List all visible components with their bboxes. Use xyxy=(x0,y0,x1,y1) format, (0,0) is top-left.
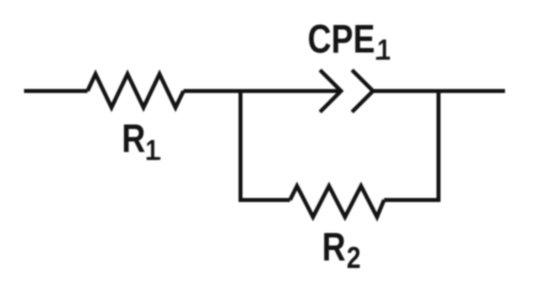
CPE1 chevron 1 xyxy=(320,70,341,112)
svg-text:1: 1 xyxy=(377,33,390,66)
wire: R2 to bottom right xyxy=(384,198,441,202)
svg-text:R: R xyxy=(322,225,346,270)
wire: R1 to node A (top junction left) xyxy=(184,89,241,93)
label CPE1 xyxy=(308,16,391,66)
resistor R1 (zigzag) xyxy=(88,74,184,108)
svg-text:1: 1 xyxy=(145,134,158,167)
CPE1 chevron 2 xyxy=(352,70,373,112)
serif foot of CPE1 subscript xyxy=(376,57,390,60)
label R1 xyxy=(122,116,159,167)
resistor R2 (zigzag) xyxy=(290,186,384,217)
wire: CPE1 to node B (top junction right) xyxy=(373,89,439,93)
serif foot of R1 subscript xyxy=(147,157,161,160)
svg-text:2: 2 xyxy=(347,241,361,276)
wire: right lead from node B xyxy=(439,89,506,93)
wire: node A to CPE1 xyxy=(241,89,342,93)
wire: left lead into R1 xyxy=(24,89,88,93)
wire: bottom left to R2 xyxy=(239,198,291,202)
wire: left branch vertical (node A down) xyxy=(239,89,243,200)
svg-text:CPE: CPE xyxy=(308,16,375,61)
svg-text:R: R xyxy=(122,116,146,161)
wire: right branch vertical (node B down) xyxy=(437,89,441,200)
label R2 xyxy=(322,225,361,276)
